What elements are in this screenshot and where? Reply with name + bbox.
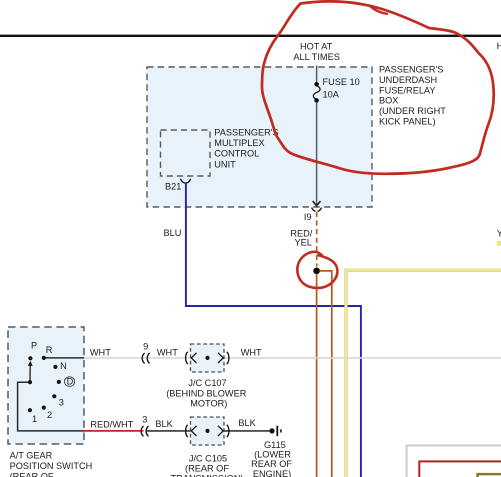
- node: wiper pivot: [28, 380, 32, 384]
- svg-text:POSITION SWITCH: POSITION SWITCH: [10, 461, 93, 471]
- node: splice junction: [313, 268, 320, 275]
- pin B21 fork connector: [181, 179, 191, 183]
- label FUSE 10 10A: [323, 77, 360, 99]
- label A/T GEAR POSITION SWITCH (REAR OF: [10, 451, 93, 477]
- ground G115: [269, 426, 281, 436]
- svg-text:3: 3: [142, 415, 147, 425]
- svg-text:ALL TIMES: ALL TIMES: [293, 52, 339, 62]
- wire: fuse output down to connector I9: [316, 103, 318, 206]
- wire: YEL branch (right and down): [346, 270, 501, 477]
- wiper arrow (selector at P): [28, 361, 33, 382]
- yellow mark (clipped at right edge): [497, 241, 501, 246]
- label fuse box description: [379, 65, 446, 127]
- note box olive accent (clipped bottom right): [478, 474, 501, 477]
- wire: feed from bus into fuse: [316, 66, 318, 84]
- svg-text:FUSE/RELAY: FUSE/RELAY: [379, 85, 436, 95]
- contact 3: [52, 394, 56, 398]
- wire: WHT row: [84, 357, 501, 359]
- note box inner red (clipped bottom right): [419, 461, 501, 477]
- label HOT AT ALL TIMES: [293, 42, 339, 62]
- svg-text:9: 9: [143, 342, 148, 352]
- contact R: [42, 356, 46, 360]
- svg-text:FUSE 10: FUSE 10: [323, 77, 360, 87]
- label D circled: [65, 376, 75, 386]
- svg-text:UNIT: UNIT: [214, 159, 236, 169]
- wire: RED/YEL dashed from I9 to splice: [316, 212, 318, 267]
- inline connector 9 (double arcs): [142, 353, 149, 363]
- svg-text:PASSENGER'S: PASSENGER'S: [379, 65, 443, 75]
- fuse FUSE 10 10A: [313, 82, 320, 103]
- note box outer gray (clipped bottom right): [407, 446, 501, 477]
- label J/C C105 (REAR OF TRANSMISSION): [171, 453, 244, 477]
- contact N: [53, 365, 57, 369]
- svg-text:HO: HO: [497, 41, 501, 51]
- svg-text:YE: YE: [497, 228, 501, 238]
- svg-text:10A: 10A: [323, 90, 340, 100]
- control unit box (passenger's multiplex control unit): [161, 130, 211, 176]
- svg-text:HOT AT: HOT AT: [300, 42, 333, 52]
- label RED/YEL: [290, 229, 312, 248]
- svg-text:R: R: [46, 345, 53, 355]
- inline connector 3 (double arcs): [141, 426, 148, 436]
- svg-text:(UNDER RIGHT: (UNDER RIGHT: [379, 106, 446, 116]
- svg-text:TRANSMISSION): TRANSMISSION): [171, 474, 244, 477]
- svg-text:BOX: BOX: [379, 96, 398, 106]
- fuse/relay box (passenger's underdash fuse/relay box): [147, 67, 372, 207]
- svg-text:2: 2: [47, 410, 52, 420]
- svg-text:MULTIPLEX: MULTIPLEX: [214, 138, 264, 148]
- switch box A/T gear position switch: [8, 327, 84, 444]
- wire: RED/WHT from switch: [84, 430, 144, 432]
- svg-text:A/T GEAR: A/T GEAR: [10, 451, 53, 461]
- svg-text:J/C C105: J/C C105: [189, 453, 227, 463]
- svg-text:YEL: YEL: [295, 238, 312, 248]
- wire: switch common path: [18, 382, 84, 431]
- wire: BLK to ground: [146, 430, 270, 432]
- svg-text:RED/WHT: RED/WHT: [90, 420, 133, 430]
- svg-text:P: P: [31, 341, 37, 351]
- svg-text:N: N: [60, 361, 67, 371]
- svg-text:WHT: WHT: [90, 347, 111, 357]
- svg-text:1: 1: [32, 414, 37, 424]
- svg-text:MOTOR): MOTOR): [190, 398, 227, 408]
- svg-text:(BEHIND BLOWER: (BEHIND BLOWER: [166, 388, 247, 398]
- contact P: [28, 356, 32, 360]
- svg-text:KICK PANEL): KICK PANEL): [379, 117, 436, 127]
- svg-text:(REAR OF: (REAR OF: [185, 463, 229, 473]
- wire: BLU from B21: [186, 184, 361, 477]
- svg-text:REAR OF: REAR OF: [251, 459, 292, 469]
- svg-text:(REAR OF: (REAR OF: [10, 471, 54, 477]
- junction connector J/C C105: [186, 417, 229, 445]
- label multiplex control unit: [214, 128, 278, 170]
- svg-text:BLK: BLK: [238, 418, 256, 428]
- connector I9 male arrow: [313, 201, 321, 206]
- svg-text:B21: B21: [165, 181, 181, 191]
- wire: RED/YEL continues down (orange): [316, 274, 318, 477]
- wire: switch R contact to box edge: [44, 357, 84, 359]
- label G115 (LOWER REAR OF ENGINE): [251, 440, 292, 477]
- svg-text:(LOWER: (LOWER: [254, 449, 291, 459]
- svg-text:ENGINE): ENGINE): [253, 469, 291, 477]
- svg-text:BLK: BLK: [155, 419, 173, 429]
- connector I9 female cup: [312, 208, 322, 212]
- junction connector J/C C107: [186, 344, 229, 372]
- contact D: [57, 380, 61, 384]
- svg-text:I9: I9: [304, 212, 312, 222]
- annotation: big red circle: [262, 1, 494, 174]
- svg-text:3: 3: [59, 397, 64, 407]
- svg-text:PASSENGER'S: PASSENGER'S: [214, 128, 278, 138]
- svg-text:BLU: BLU: [164, 228, 182, 238]
- contact 1: [28, 408, 32, 412]
- label J/C C107 (BEHIND BLOWER MOTOR): [166, 378, 247, 408]
- contact 2: [42, 406, 46, 410]
- annotation: small red circle around splice: [297, 252, 337, 288]
- svg-text:CONTROL: CONTROL: [214, 149, 259, 159]
- svg-text:UNDERDASH: UNDERDASH: [379, 75, 437, 85]
- svg-text:WHT: WHT: [157, 347, 178, 357]
- power bus line (HOT AT ALL TIMES feed): [0, 35, 501, 37]
- svg-text:WHT: WHT: [241, 347, 262, 357]
- wire: orange branch right then down: [320, 271, 332, 477]
- svg-text:J/C C107: J/C C107: [188, 378, 226, 388]
